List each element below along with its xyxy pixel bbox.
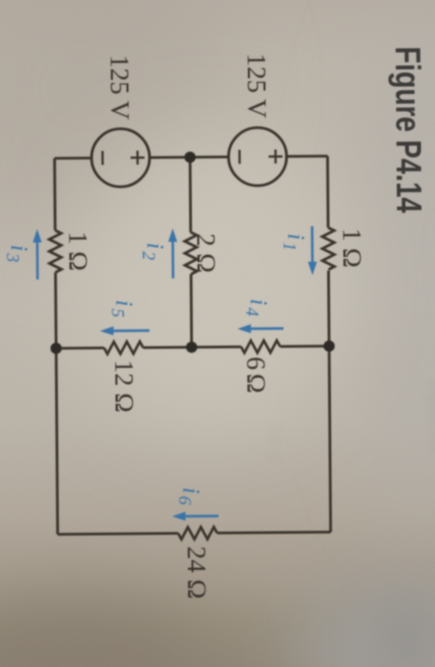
caption Figure P4.14: [388, 46, 429, 213]
wire middle horizontal right segment: [190, 274, 193, 347]
resistor R6 6ohm zigzag: [241, 340, 280, 352]
svg-text:12 Ω: 12 Ω: [109, 360, 139, 413]
resistor R24 24ohm zigzag: [178, 527, 217, 539]
wire middle vertical top segment: [280, 345, 329, 348]
current arrow i2: [168, 228, 177, 278]
svg-text:24 Ω: 24 Ω: [182, 546, 212, 599]
wire middle horizontal left segment: [189, 157, 192, 232]
resistor R2 2ohm zigzag: [185, 232, 197, 274]
current arrow i6: [172, 511, 219, 520]
current arrow i5: [100, 326, 150, 335]
svg-text:i3: i3: [3, 245, 32, 263]
wire right upper segment: [217, 531, 330, 535]
svg-text:Figure P4.14: Figure P4.14: [388, 46, 429, 213]
wire bottom right segment: [55, 272, 57, 534]
current arrow i4: [237, 324, 283, 333]
node dot bottom of middle branch: [50, 343, 61, 354]
resistor R3 1ohm bottom zigzag: [49, 230, 61, 272]
svg-text:2 Ω: 2 Ω: [191, 233, 221, 273]
wire right lower segment: [58, 532, 178, 536]
svg-text:125 V: 125 V: [105, 55, 136, 120]
wire top right segment: [328, 271, 330, 532]
wire source1 to node A: [190, 156, 228, 159]
minus sign source V2: [101, 151, 103, 165]
svg-text:6 Ω: 6 Ω: [241, 357, 271, 394]
svg-text:1 Ω: 1 Ω: [337, 228, 367, 268]
wire node A to source2: [150, 156, 190, 159]
current arrow i3: [33, 229, 42, 280]
plus sign source V2: [130, 151, 144, 165]
wire left top to source1: [287, 155, 328, 158]
resistor R1 1ohm top zigzag: [322, 228, 334, 270]
voltage source V2 125V circle: [91, 129, 149, 187]
svg-text:1 Ω: 1 Ω: [63, 231, 93, 271]
node dot middle junction: [186, 342, 197, 353]
node dot between sources: [184, 152, 195, 163]
svg-text:i1: i1: [280, 233, 309, 251]
current arrow i1: [308, 226, 317, 275]
svg-text:125 V: 125 V: [242, 53, 273, 118]
plus sign source V1: [268, 149, 282, 163]
wire middle vertical bottom segment: [56, 347, 104, 350]
node dot top of middle branch: [323, 340, 334, 351]
svg-text:i2: i2: [139, 242, 168, 260]
wire middle vertical mid segment: [143, 345, 241, 349]
wire top left segment: [326, 156, 329, 227]
voltage source V1 125V circle: [228, 127, 286, 185]
wire source2 to bottom left corner: [55, 157, 92, 160]
svg-text:i6: i6: [175, 487, 204, 505]
wire bottom left segment: [53, 158, 56, 230]
svg-text:i4: i4: [242, 299, 271, 317]
resistor R12 12ohm zigzag: [104, 342, 143, 354]
svg-text:i5: i5: [108, 300, 137, 318]
minus sign source V1: [238, 150, 240, 164]
